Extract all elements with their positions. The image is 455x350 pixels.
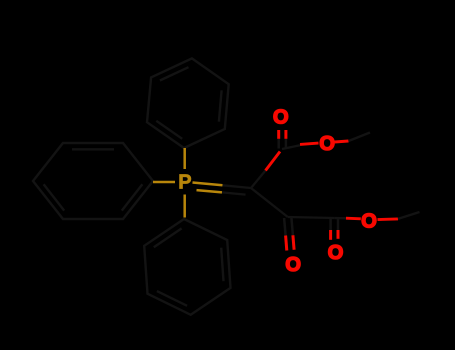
top ester C-O single bond red half — [300, 143, 319, 144]
P-phenyl bond down (orange) — [183, 195, 186, 218]
top methyl bond red half — [335, 141, 349, 142]
phenyl ring top (C ring) — [147, 58, 229, 148]
svg-text:P: P — [178, 171, 191, 193]
svg-text:O: O — [319, 133, 335, 155]
svg-text:O: O — [285, 254, 301, 276]
keto C=O line1 dark half — [284, 218, 286, 236]
top methyl bond dark half — [349, 133, 371, 142]
bond keto C to bottom ester carbonyl C (dark) — [288, 217, 335, 218]
bottom ester C=O line1 dark half — [329, 219, 332, 231]
top ester C=O line1 red half — [277, 130, 280, 139]
bottom ester C=O line2 dark half — [337, 219, 340, 231]
bond ylide C to top ester carbonyl C: red half — [266, 152, 281, 171]
phenyl ring bottom — [144, 219, 230, 315]
top ester C=O double bond line1 dark half — [277, 139, 280, 149]
svg-text:O: O — [273, 106, 289, 128]
svg-text:O: O — [361, 210, 377, 232]
bottom methyl bond red half — [378, 217, 399, 221]
bottom ester C-O single bond dark half — [334, 217, 348, 220]
bond ylide C to top ester carbonyl C: dark half — [251, 171, 266, 189]
keto C=O line1 red half — [286, 236, 287, 251]
bottom ester C-O single bond red half — [346, 217, 361, 221]
top ester C-O single bond dark half — [282, 145, 300, 149]
P=C lower line carbon half — [222, 192, 246, 194]
P=C lower line orange half — [197, 190, 223, 192]
phenyl ring left (perspective) — [33, 143, 153, 219]
keto C=O line2 red half — [293, 235, 294, 250]
bond ylide C to keto C (dark) — [251, 188, 288, 217]
bottom ester C=O line1 red half — [329, 230, 332, 240]
top ester C=O line2 red half — [284, 130, 287, 139]
bottom methyl bond dark half — [398, 212, 420, 219]
P-phenyl bond up (orange) — [183, 148, 186, 169]
P=C upper line carbon half — [223, 185, 252, 188]
keto C=O line2 dark half — [291, 218, 293, 236]
svg-text:O: O — [328, 242, 344, 264]
P=C ylide double bond: upper line orange half — [193, 183, 223, 186]
P-phenyl bond left (orange) — [153, 181, 175, 184]
bottom ester C=O line2 red half — [337, 230, 340, 239]
top ester C=O line2 dark half — [285, 139, 288, 148]
